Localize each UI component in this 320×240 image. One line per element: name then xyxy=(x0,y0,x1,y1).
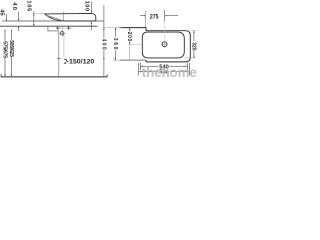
inner rim line 2 xyxy=(47,16,57,19)
height dim 575/675 xyxy=(4,31,6,76)
dim 275 xyxy=(140,15,145,17)
inner bowl outline xyxy=(142,32,184,58)
pipe second line xyxy=(63,35,65,58)
inner rim line 1 xyxy=(46,15,61,20)
svg-text:275: 275 xyxy=(150,15,159,21)
fixing cross 1 xyxy=(56,26,59,29)
right small dim 320 xyxy=(191,30,196,32)
svg-text:320: 320 xyxy=(191,42,197,51)
svg-text:40: 40 xyxy=(11,2,17,10)
outer basin outline (stepped: deck left, bowl section right) xyxy=(120,28,191,62)
svg-text:400: 400 xyxy=(101,39,107,50)
svg-text:100: 100 xyxy=(84,1,90,12)
counter slab bottom line xyxy=(0,25,98,27)
washbowl profile outline xyxy=(45,13,96,21)
dim 540 xyxy=(140,63,142,70)
svg-text:105: 105 xyxy=(25,0,31,12)
slope arrow symbol xyxy=(64,59,68,61)
tick on pipe xyxy=(57,58,61,60)
depth dim 400 xyxy=(103,5,105,77)
svg-text:thehome: thehome xyxy=(142,65,197,80)
drain centerline vertical ext xyxy=(164,23,166,42)
dim 550 xyxy=(138,63,140,76)
dim 105 line xyxy=(33,11,35,25)
dim 40 line xyxy=(18,12,20,21)
floor end tick right xyxy=(106,74,108,77)
ext line rim level xyxy=(33,12,44,14)
svg-text:45: 45 xyxy=(0,9,4,15)
depth dim 360 xyxy=(115,28,117,60)
trap outline step xyxy=(48,26,59,31)
drain circle xyxy=(162,42,167,47)
dim 100 line xyxy=(90,2,92,13)
height dim 595/625 xyxy=(11,31,13,76)
line through crosses xyxy=(60,27,67,29)
left cut-off dim line xyxy=(5,14,7,20)
svg-text:360: 360 xyxy=(112,38,118,50)
svg-text:595/625: 595/625 xyxy=(8,40,14,57)
drain pipe line to floor xyxy=(58,31,60,77)
floor line xyxy=(1,76,108,78)
floor end tick left xyxy=(0,74,2,77)
drain outlet symbol (circle with cross) xyxy=(60,32,64,36)
ext line deck top xyxy=(103,27,122,29)
drain centerline through bowl xyxy=(63,12,65,21)
counter slab top line xyxy=(2,20,104,22)
svg-text:150/120: 150/120 xyxy=(69,58,95,65)
ext line deck bottom xyxy=(114,59,146,61)
drain centerline horizontal ext xyxy=(129,43,143,45)
fixing cross 2 xyxy=(67,26,70,29)
svg-text:200: 200 xyxy=(126,32,132,42)
depth dim 200 xyxy=(129,28,131,44)
svg-text:575/675: 575/675 xyxy=(1,41,7,58)
